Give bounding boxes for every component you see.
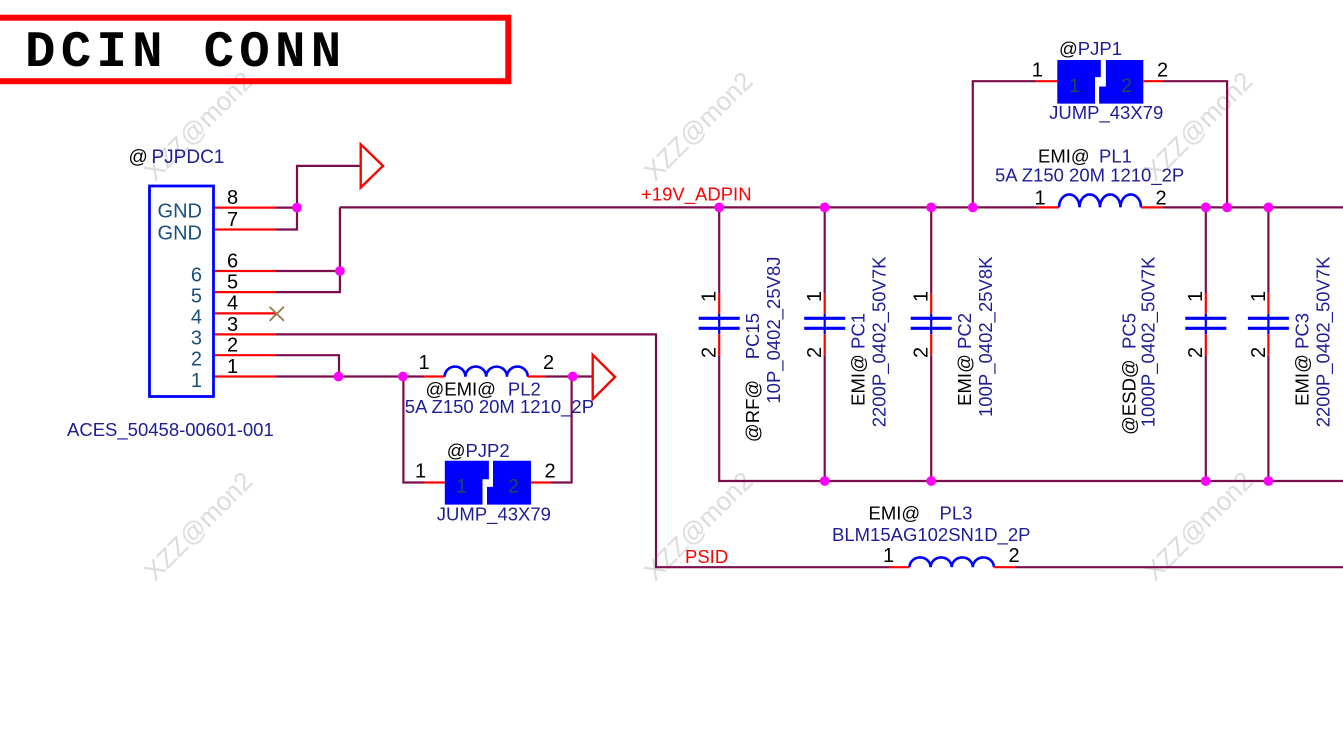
pin 3 stub bbox=[215, 333, 276, 335]
svg-text:1: 1 bbox=[804, 291, 826, 302]
jumper PJP1 labels bbox=[1032, 38, 1168, 124]
svg-text:1: 1 bbox=[1069, 76, 1080, 97]
svg-text:@PJP2: @PJP2 bbox=[447, 440, 510, 461]
svg-text:1: 1 bbox=[699, 291, 721, 302]
wire pin3 PSID run bbox=[276, 334, 890, 567]
junction bottom PC1 bbox=[820, 476, 830, 486]
capacitor PC2 bbox=[911, 207, 952, 481]
junction pin8/pin7 bbox=[292, 203, 302, 213]
junction bottom PC5 bbox=[1201, 476, 1211, 486]
svg-text:2: 2 bbox=[543, 352, 554, 374]
pin 7 stub bbox=[215, 228, 276, 230]
svg-text:ACES_50458-00601-001: ACES_50458-00601-001 bbox=[67, 419, 274, 441]
svg-text:PSID: PSID bbox=[685, 546, 728, 567]
svg-text:2: 2 bbox=[1157, 60, 1168, 82]
wire pin2 down to pin1 bbox=[276, 355, 339, 376]
off-page connector PL2 output bbox=[593, 355, 615, 399]
wire +19V_ADPIN rail left bbox=[340, 206, 1038, 208]
svg-text:3: 3 bbox=[191, 328, 202, 350]
svg-text:1: 1 bbox=[883, 545, 894, 567]
inductor PL1 bbox=[1037, 194, 1162, 207]
svg-text:2: 2 bbox=[1121, 76, 1132, 97]
svg-text:DCIN CONN: DCIN CONN bbox=[25, 25, 346, 82]
svg-text:1: 1 bbox=[227, 356, 238, 378]
inductor PL3 bbox=[890, 557, 1016, 567]
svg-text:1: 1 bbox=[191, 370, 202, 392]
wire pin5 up to pin6 junction bbox=[276, 271, 340, 292]
junction pin6/pin5 bbox=[335, 266, 345, 276]
inductor PL2 labels bbox=[405, 352, 594, 418]
junction rail PC2 bbox=[926, 203, 936, 213]
title block DCIN CONN bbox=[0, 18, 508, 82]
inductor PL3 labels bbox=[832, 503, 1030, 567]
svg-text:2: 2 bbox=[911, 347, 933, 358]
svg-text:1: 1 bbox=[456, 476, 467, 497]
svg-text:XZZ@mon2: XZZ@mon2 bbox=[638, 66, 759, 187]
pin 1 stub bbox=[215, 375, 276, 377]
pin 5 stub bbox=[215, 291, 276, 293]
svg-text:2: 2 bbox=[804, 347, 826, 358]
junction rail PC15 bbox=[714, 203, 724, 213]
capacitor PC2 labels bbox=[911, 256, 998, 417]
svg-text:EMI@ PC3: EMI@ PC3 bbox=[1291, 313, 1312, 406]
junction rail PC5 bbox=[1201, 203, 1211, 213]
pin 4 stub bbox=[215, 312, 277, 314]
svg-text:1: 1 bbox=[911, 291, 933, 302]
svg-text:JUMP_43X79: JUMP_43X79 bbox=[437, 504, 551, 526]
svg-text:100P_0402_25V8K: 100P_0402_25V8K bbox=[975, 256, 997, 417]
capacitor PC15 labels bbox=[699, 257, 786, 443]
wire pin7 up to pin8 junction bbox=[276, 208, 297, 230]
svg-text:EMI@ PC1: EMI@ PC1 bbox=[848, 313, 869, 406]
wire PSID right of PL3 bbox=[1015, 566, 1343, 568]
junction rail PJP1 right bbox=[1222, 203, 1232, 213]
svg-text:EMI@ PC2: EMI@ PC2 bbox=[954, 313, 975, 406]
jumper PJP2 labels bbox=[415, 440, 556, 526]
svg-text:8: 8 bbox=[227, 187, 238, 209]
capacitor PC1 labels bbox=[804, 256, 891, 427]
no-connect pin 4 bbox=[270, 307, 284, 321]
junction rail PJP1 left bbox=[968, 203, 978, 213]
junction bottom PC2 bbox=[926, 476, 936, 486]
svg-text:5: 5 bbox=[227, 272, 238, 294]
svg-text:XZZ@mon2: XZZ@mon2 bbox=[138, 466, 259, 587]
svg-text:5A Z150 20M 1210_2P: 5A Z150 20M 1210_2P bbox=[995, 165, 1184, 187]
wire pin1 to PL2 bbox=[276, 375, 424, 377]
svg-text:2200P_0402_50V7K: 2200P_0402_50V7K bbox=[1312, 256, 1334, 427]
capacitor PC5 bbox=[1185, 207, 1226, 481]
capacitor PC5 labels bbox=[1118, 256, 1207, 435]
pin 8 stub bbox=[215, 207, 276, 209]
wire pin6 to +19V rail bbox=[276, 207, 340, 271]
pin 6 stub bbox=[215, 270, 276, 272]
svg-text:2: 2 bbox=[1155, 188, 1166, 210]
svg-text:1: 1 bbox=[1185, 291, 1207, 302]
svg-text:2: 2 bbox=[699, 347, 721, 358]
svg-text:2: 2 bbox=[508, 476, 519, 497]
wire PJP1 loop right bbox=[1163, 81, 1227, 207]
svg-text:4: 4 bbox=[191, 306, 202, 328]
junction rail PC1 bbox=[820, 203, 830, 213]
svg-text:6: 6 bbox=[227, 250, 238, 272]
inductor PL2 bbox=[424, 367, 546, 377]
svg-text:@PJP1: @PJP1 bbox=[1059, 38, 1122, 59]
svg-text:@PJPDC1: @PJPDC1 bbox=[129, 147, 225, 168]
wire pin8 to GND off-page bbox=[276, 166, 361, 208]
svg-text:GND: GND bbox=[158, 223, 202, 245]
svg-text:@ESD@ PC5: @ESD@ PC5 bbox=[1118, 313, 1139, 435]
svg-text:5: 5 bbox=[191, 285, 202, 307]
svg-text:EMI@PL3: EMI@PL3 bbox=[869, 503, 973, 524]
svg-text:BLM15AG102SN1D_2P: BLM15AG102SN1D_2P bbox=[832, 524, 1030, 546]
svg-text:2: 2 bbox=[1008, 545, 1019, 567]
junction PL2/PJP2 left bbox=[398, 372, 408, 382]
wire PJP1 loop left bbox=[973, 81, 1037, 207]
pin 2 stub bbox=[215, 354, 276, 356]
wire bottom rail bbox=[719, 355, 1343, 481]
junction bottom PC3 bbox=[1264, 476, 1274, 486]
connector PJPDC1 body bbox=[150, 186, 214, 397]
svg-text:3: 3 bbox=[227, 314, 238, 336]
wire PL2 pin2 to off-page bbox=[546, 375, 593, 377]
junction pin2/pin1 bbox=[334, 372, 344, 382]
svg-text:2: 2 bbox=[227, 335, 238, 357]
connector pin names bbox=[158, 201, 202, 392]
svg-text:GND: GND bbox=[158, 201, 202, 223]
svg-text:2: 2 bbox=[544, 461, 555, 483]
wire PJP2 loop right bbox=[551, 377, 572, 483]
svg-text:1: 1 bbox=[1034, 188, 1045, 210]
svg-text:1000P_0402_50V7K: 1000P_0402_50V7K bbox=[1137, 256, 1159, 427]
svg-text:7: 7 bbox=[227, 209, 238, 231]
svg-text:2: 2 bbox=[191, 349, 202, 371]
capacitor PC3 labels bbox=[1248, 256, 1335, 427]
svg-text:JUMP_43X79: JUMP_43X79 bbox=[1049, 102, 1163, 124]
wire +19V_ADPIN rail right bbox=[1163, 206, 1343, 208]
svg-text:2: 2 bbox=[1248, 347, 1270, 358]
svg-text:EMI@PL1: EMI@PL1 bbox=[1038, 146, 1132, 167]
capacitor PC3 bbox=[1248, 207, 1289, 481]
connector pin numbers bbox=[227, 187, 238, 378]
jumper PJP2 bbox=[425, 461, 552, 505]
inductor PL1 labels bbox=[995, 146, 1184, 210]
wire PJP2 loop left bbox=[403, 377, 424, 483]
svg-text:@RF@ PC15: @RF@ PC15 bbox=[742, 313, 763, 442]
watermark bbox=[138, 66, 1259, 587]
svg-text:4: 4 bbox=[227, 292, 238, 314]
junction rail PC3 bbox=[1264, 203, 1274, 213]
svg-text:1: 1 bbox=[1248, 291, 1270, 302]
capacitor PC15 bbox=[699, 207, 740, 355]
svg-text:5A Z150 20M 1210_2P: 5A Z150 20M 1210_2P bbox=[405, 396, 594, 418]
svg-text:2: 2 bbox=[1185, 347, 1207, 358]
svg-text:2200P_0402_50V7K: 2200P_0402_50V7K bbox=[869, 256, 891, 427]
svg-text:1: 1 bbox=[1032, 60, 1043, 82]
svg-text:+19V_ADPIN: +19V_ADPIN bbox=[641, 184, 752, 206]
svg-text:1: 1 bbox=[415, 461, 426, 483]
jumper PJP1 bbox=[1036, 60, 1163, 104]
svg-text:6: 6 bbox=[191, 264, 202, 286]
capacitor PC1 bbox=[804, 207, 845, 481]
svg-text:10P_0402_25V8J: 10P_0402_25V8J bbox=[763, 257, 785, 404]
junction PL2/PJP2 right bbox=[568, 372, 578, 382]
off-page connector GND bbox=[361, 144, 383, 187]
svg-text:1: 1 bbox=[418, 352, 429, 374]
